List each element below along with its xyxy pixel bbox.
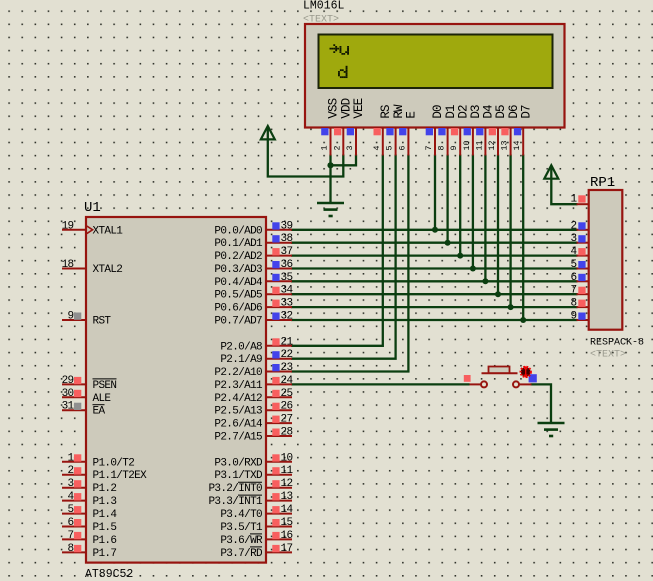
pin 1 (RP1) <box>577 203 589 205</box>
svg-text:P2.1/A9: P2.1/A9 <box>220 354 262 366</box>
junction node D7/P0.7 <box>520 317 526 323</box>
wire P0.5 to RP1 pin 7 <box>291 293 578 295</box>
push button right contact <box>513 381 519 387</box>
svg-text:P3.6/WR: P3.6/WR <box>220 535 263 547</box>
svg-text:<TEXT>: <TEXT> <box>303 15 339 26</box>
svg-text:PSEN: PSEN <box>93 380 117 392</box>
LCD char d <box>338 66 348 78</box>
svg-text:P3.5/T1: P3.5/T1 <box>220 522 263 534</box>
svg-text:9: 9 <box>68 311 74 323</box>
svg-text:10: 10 <box>463 141 472 151</box>
svg-text:35: 35 <box>281 272 293 284</box>
svg-text:VEE: VEE <box>352 98 366 118</box>
svg-text:21: 21 <box>281 336 294 348</box>
pin 11 D4 (LCD) <box>484 128 486 156</box>
svg-text:18: 18 <box>62 259 74 271</box>
svg-text:P2.7/A15: P2.7/A15 <box>214 432 262 444</box>
pin 6 P1.5 (left) <box>62 526 86 528</box>
wire P0.1 to RP1 pin 3 <box>291 242 578 244</box>
svg-text:P2.2/A10: P2.2/A10 <box>214 367 262 379</box>
wire LCD D0 down to P0.0 net <box>434 155 436 230</box>
junction node D5/P0.5 <box>495 291 501 297</box>
pin 6 E (LCD) <box>407 128 409 156</box>
LCD char u <box>340 46 350 55</box>
svg-text:P1.3: P1.3 <box>93 496 117 508</box>
junction node VSS/VEE <box>327 162 333 168</box>
svg-text:23: 23 <box>281 362 293 374</box>
overline EA <box>93 404 105 406</box>
pin 29 PSEN (left) <box>62 383 86 385</box>
svg-text:25: 25 <box>281 388 293 400</box>
svg-text:P2.4/A12: P2.4/A12 <box>214 393 262 405</box>
pin 3 VEE (LCD) <box>355 128 357 156</box>
pin 14 D7 (LCD) <box>522 128 524 156</box>
svg-text:1: 1 <box>68 452 75 464</box>
svg-text:P2.5/A13: P2.5/A13 <box>214 406 262 418</box>
svg-text:4: 4 <box>373 146 382 151</box>
svg-text:P0.0/AD0: P0.0/AD0 <box>214 225 262 237</box>
pin 3 P1.2 (left) <box>62 487 86 489</box>
svg-text:6: 6 <box>398 146 407 151</box>
svg-text:22: 22 <box>281 349 293 361</box>
svg-text:P0.1/AD1: P0.1/AD1 <box>214 238 263 250</box>
pin 32 P0.7/AD7 (right) <box>266 319 292 321</box>
pin 8 D1 (LCD) <box>447 128 449 156</box>
svg-text:P1.5: P1.5 <box>93 522 117 534</box>
svg-text:4: 4 <box>571 246 578 258</box>
pin 10 P3.0/RXD (right) <box>266 461 292 463</box>
wire LCD VSS to ground <box>329 155 331 204</box>
wire LCD VEE to VSS junction <box>331 155 357 166</box>
wire P0.0 to RP1 pin 2 <box>291 229 578 231</box>
svg-text:P1.1/T2EX: P1.1/T2EX <box>93 470 148 482</box>
svg-text:7: 7 <box>425 146 434 151</box>
svg-text:39: 39 <box>281 220 293 232</box>
wire LCD D6 down to P0.6 net <box>509 155 511 308</box>
wire LCD RS to P2.0 <box>291 155 383 346</box>
pin 18 XTAL2 (left) <box>62 268 86 270</box>
svg-text:38: 38 <box>281 233 293 245</box>
pin 7 P1.6 (left) <box>62 538 86 540</box>
svg-text:6: 6 <box>68 517 74 529</box>
svg-text:P1.7: P1.7 <box>93 548 117 560</box>
svg-text:XTAL1: XTAL1 <box>93 225 124 237</box>
pin 4 (RP1) <box>577 255 589 257</box>
pin 25 P2.4/A12 (right) <box>266 396 292 398</box>
svg-text:5: 5 <box>68 504 74 516</box>
pin 8 (RP1) <box>577 306 589 308</box>
wire LCD E to P2.2 <box>291 155 408 372</box>
pin 4 P1.3 (left) <box>62 500 86 502</box>
pin 5 RW (LCD) <box>395 128 397 156</box>
svg-text:RST: RST <box>93 316 112 328</box>
pin 9 D2 (LCD) <box>459 128 461 156</box>
svg-text:15: 15 <box>281 517 293 529</box>
svg-text:9: 9 <box>571 311 577 323</box>
power VCC arrow (RP1) <box>544 165 558 178</box>
svg-text:14: 14 <box>281 504 294 516</box>
svg-text:P3.7/RD: P3.7/RD <box>220 548 263 560</box>
wire button to ground <box>531 384 552 423</box>
svg-text:31: 31 <box>62 401 75 413</box>
svg-text:10: 10 <box>281 452 293 464</box>
pin 2 (RP1) <box>577 229 589 231</box>
svg-text:XTAL2: XTAL2 <box>93 264 123 276</box>
svg-text:P1.6: P1.6 <box>93 535 117 547</box>
svg-text:5: 5 <box>386 146 395 151</box>
pin 1 VSS (LCD) <box>330 128 332 156</box>
svg-text:D7: D7 <box>519 105 533 119</box>
wire LCD D1 down to P0.1 net <box>446 155 448 243</box>
push button actuator icon <box>521 366 531 378</box>
junction node D1/P0.1 <box>445 240 451 246</box>
pin 35 P0.4/AD4 (right) <box>266 280 292 282</box>
svg-text:P3.4/T0: P3.4/T0 <box>220 509 262 521</box>
svg-text:16: 16 <box>281 530 293 542</box>
node state square (button left, high) <box>464 375 471 382</box>
svg-text:11: 11 <box>281 465 294 477</box>
svg-text:P0.4/AD4: P0.4/AD4 <box>214 277 263 289</box>
svg-text:4: 4 <box>68 491 75 503</box>
svg-text:ALE: ALE <box>93 393 112 405</box>
svg-text:P0.3/AD3: P0.3/AD3 <box>214 264 262 276</box>
pin 6 (RP1) <box>577 280 589 282</box>
pin 17 P3.7/RD (right) <box>266 551 292 553</box>
svg-text:7: 7 <box>68 530 74 542</box>
svg-text:8: 8 <box>68 543 74 555</box>
svg-text:1: 1 <box>571 194 578 206</box>
overline RD <box>250 546 262 548</box>
pin 12 D5 (LCD) <box>497 128 499 156</box>
wire LCD D5 down to P0.5 net <box>497 155 499 295</box>
pin 21 P2.0/A8 (right) <box>266 345 292 347</box>
junction node D2/P0.2 <box>457 253 463 259</box>
svg-text:37: 37 <box>281 246 293 258</box>
svg-text:32: 32 <box>281 311 293 323</box>
svg-text:6: 6 <box>571 272 577 284</box>
push button cap <box>489 367 510 374</box>
svg-text:LM016L: LM016L <box>303 0 345 13</box>
svg-text:AT89C52: AT89C52 <box>85 568 133 581</box>
svg-text:P0.5/AD5: P0.5/AD5 <box>214 290 262 302</box>
pin 19 XTAL1 (left) <box>62 229 86 231</box>
pin 30 ALE (left) <box>62 396 86 398</box>
pin 2 P1.1/T2EX (left) <box>62 474 86 476</box>
pin 38 P0.1/AD1 (right) <box>266 242 292 244</box>
svg-text:3: 3 <box>68 478 74 490</box>
svg-text:EA: EA <box>93 406 106 418</box>
junction node D4/P0.4 <box>482 278 488 284</box>
svg-text:P3.2/INT0: P3.2/INT0 <box>208 483 262 495</box>
microcontroller U1 AT89C52 <box>86 217 266 563</box>
wire P0.7 to RP1 pin 9 <box>291 319 578 321</box>
svg-text:P2.0/A8: P2.0/A8 <box>220 341 262 353</box>
svg-text:P1.0/T2: P1.0/T2 <box>93 457 135 469</box>
svg-text:11: 11 <box>475 141 484 151</box>
pin 15 P3.5/T1 (right) <box>266 526 292 528</box>
pin 7 D0 (LCD) <box>434 128 436 156</box>
pin 4 RS (LCD) <box>382 128 384 156</box>
wire P0.3 to RP1 pin 5 <box>291 267 578 269</box>
wire LCD D7 down to P0.7 net <box>522 155 524 321</box>
svg-text:2: 2 <box>68 465 74 477</box>
svg-text:17: 17 <box>281 543 293 555</box>
wire P0.6 to RP1 pin 8 <box>291 306 578 308</box>
svg-text:E: E <box>405 112 419 119</box>
pin 34 P0.5/AD5 (right) <box>266 293 292 295</box>
pin 23 P2.2/A10 (right) <box>266 371 292 373</box>
pin 13 P3.3/INT1 (right) <box>266 500 292 502</box>
svg-text:P1.4: P1.4 <box>93 509 118 521</box>
svg-text:13: 13 <box>281 491 293 503</box>
junction node D0/P0.0 <box>432 227 438 233</box>
pin 8 P1.7 (left) <box>62 551 86 553</box>
overline WR <box>250 533 262 535</box>
svg-text:<TEXT>: <TEXT> <box>590 350 626 361</box>
pin 31 EA (left) <box>62 409 86 411</box>
pin 9 RST (left) <box>62 319 86 321</box>
wire P0.2 to RP1 pin 4 <box>291 254 578 256</box>
pin 5 (RP1) <box>577 268 589 270</box>
svg-text:33: 33 <box>281 298 293 310</box>
svg-text:3: 3 <box>571 233 577 245</box>
svg-text:1: 1 <box>321 146 330 151</box>
svg-text:24: 24 <box>281 375 294 387</box>
push button terminal stubs <box>470 383 482 385</box>
pin 10 D3 (LCD) <box>472 128 474 156</box>
pin 39 P0.0/AD0 (right) <box>266 229 292 231</box>
pin 36 P0.3/AD3 (right) <box>266 268 292 270</box>
junction node D3/P0.3 <box>470 266 476 272</box>
power VCC arrow (LCD VDD) <box>261 126 275 139</box>
svg-text:P3.3/INT1: P3.3/INT1 <box>208 496 263 508</box>
svg-text:8: 8 <box>438 146 447 151</box>
pin 37 P0.2/AD2 (right) <box>266 255 292 257</box>
push button bar <box>482 372 518 374</box>
svg-text:19: 19 <box>62 220 74 232</box>
junction node D6/P0.6 <box>508 304 514 310</box>
svg-text:U1: U1 <box>84 200 101 216</box>
pin 9 (RP1) <box>577 319 589 321</box>
svg-text:28: 28 <box>281 427 293 439</box>
svg-text:P2.3/A11: P2.3/A11 <box>214 380 263 392</box>
svg-text:14: 14 <box>513 141 522 151</box>
wire P0.4 to RP1 pin 6 <box>291 280 578 282</box>
pin 24 P2.3/A11 (right) <box>266 383 292 385</box>
clock chevron XTAL1 <box>87 226 93 234</box>
svg-text:2: 2 <box>571 220 577 232</box>
wire LCD D2 down to P0.2 net <box>459 155 461 256</box>
svg-text:29: 29 <box>62 375 74 387</box>
svg-text:36: 36 <box>281 259 293 271</box>
svg-text:7: 7 <box>571 285 577 297</box>
svg-text:P2.6/A14: P2.6/A14 <box>214 419 263 431</box>
ground (button) <box>538 423 565 436</box>
overline INT0 <box>238 481 262 483</box>
pin 27 P2.6/A14 (right) <box>266 422 292 424</box>
wire LCD D3 down to P0.3 net <box>472 155 474 269</box>
wire P2.3 to button <box>291 383 470 385</box>
svg-text:P3.0/RXD: P3.0/RXD <box>214 457 263 469</box>
overline INT1 <box>238 494 262 496</box>
svg-text:12: 12 <box>281 478 293 490</box>
pin 16 P3.6/WR (right) <box>266 538 292 540</box>
svg-text:34: 34 <box>281 285 294 297</box>
svg-text:3: 3 <box>346 146 355 151</box>
LCD glass screen <box>319 35 553 89</box>
wire RP1 pin1 to VCC arrow <box>551 165 577 204</box>
push button left contact <box>481 381 487 387</box>
svg-text:5: 5 <box>571 259 577 271</box>
svg-text:26: 26 <box>281 401 293 413</box>
svg-text:30: 30 <box>62 388 74 400</box>
svg-text:27: 27 <box>281 414 293 426</box>
pin 11 P3.1/TXD (right) <box>266 474 292 476</box>
svg-text:P0.6/AD6: P0.6/AD6 <box>214 303 262 315</box>
LCD char arrow <box>330 44 340 53</box>
LCD display LM016L <box>305 24 565 128</box>
wire LCD VDD to VCC arrow <box>268 126 344 177</box>
pin 28 P2.7/A15 (right) <box>266 435 292 437</box>
wire LCD RW to P2.1 <box>291 155 396 359</box>
svg-text:P3.1/TXD: P3.1/TXD <box>214 470 263 482</box>
pin 33 P0.6/AD6 (right) <box>266 306 292 308</box>
resistor pack RP1 RESPACK-8 <box>589 190 623 330</box>
svg-text:12: 12 <box>488 141 497 151</box>
node state square (button right, low) <box>529 374 537 382</box>
pin 7 (RP1) <box>577 293 589 295</box>
pin 26 P2.5/A13 (right) <box>266 409 292 411</box>
pin 22 P2.1/A9 (right) <box>266 358 292 360</box>
pin 13 D6 (LCD) <box>510 128 512 156</box>
pin 3 (RP1) <box>577 242 589 244</box>
wire LCD D4 down to P0.4 net <box>484 155 486 282</box>
svg-text:13: 13 <box>501 141 510 151</box>
pin 1 P1.0/T2 (left) <box>62 461 86 463</box>
svg-text:8: 8 <box>571 298 577 310</box>
svg-text:P0.2/AD2: P0.2/AD2 <box>214 251 262 263</box>
pin 2 VDD (LCD) <box>342 128 344 156</box>
svg-text:P1.2: P1.2 <box>93 483 117 495</box>
pin 14 P3.4/T0 (right) <box>266 513 292 515</box>
pin 5 P1.4 (left) <box>62 513 86 515</box>
svg-text:RESPACK-8: RESPACK-8 <box>590 338 644 349</box>
pin 12 P3.2/INT0 (right) <box>266 487 292 489</box>
svg-text:9: 9 <box>450 146 459 151</box>
svg-text:2: 2 <box>333 146 342 151</box>
svg-text:RP1: RP1 <box>590 175 615 191</box>
svg-text:P0.7/AD7: P0.7/AD7 <box>214 316 262 328</box>
ground (LCD VSS) <box>317 203 344 216</box>
overline PSEN <box>93 378 117 380</box>
